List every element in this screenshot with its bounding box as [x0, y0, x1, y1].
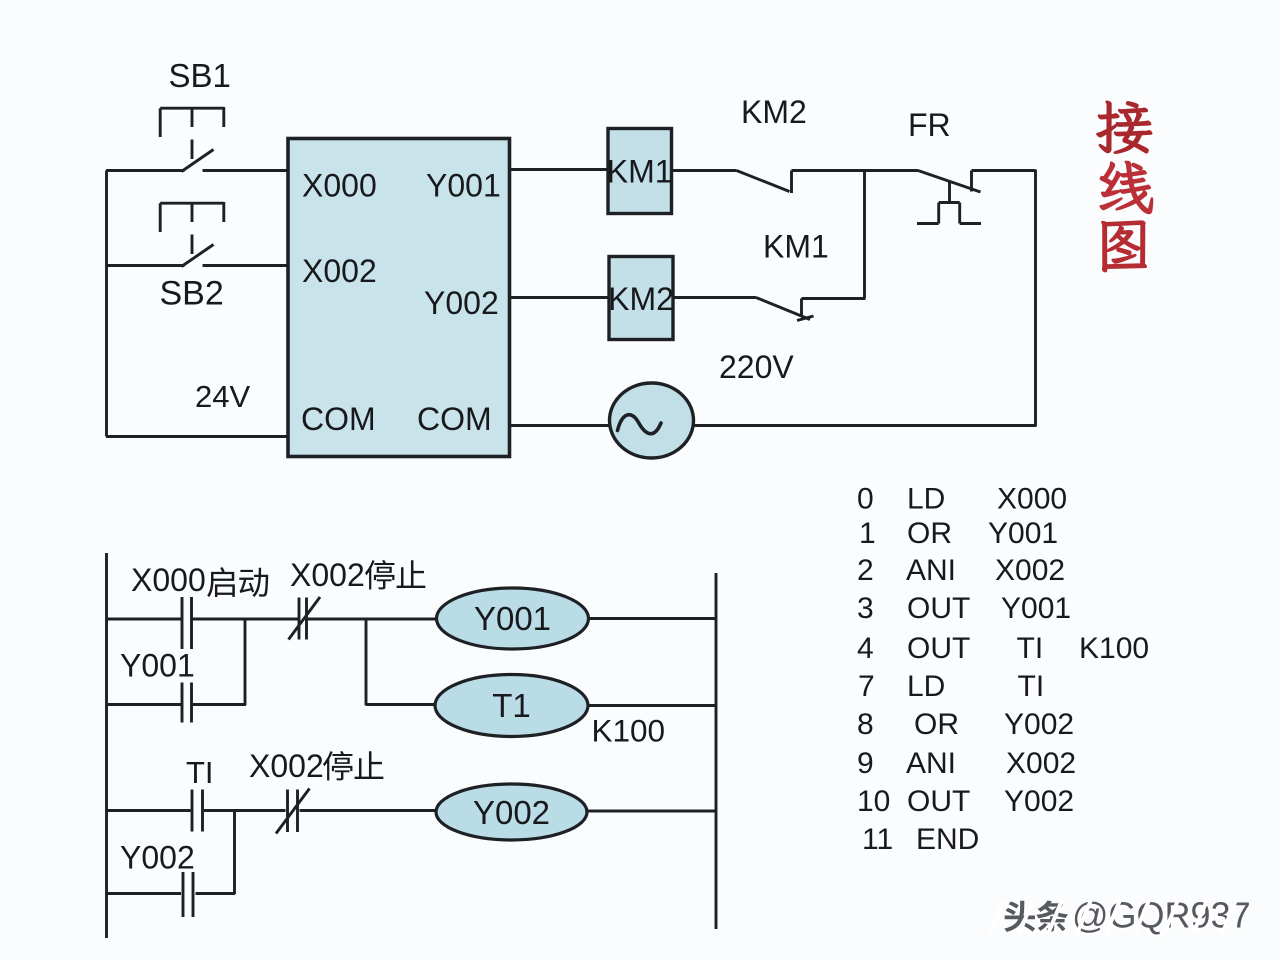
svg-text:9: 9: [857, 747, 874, 780]
svg-text:TI: TI: [186, 755, 214, 790]
svg-text:LD: LD: [907, 670, 945, 703]
svg-text:KM2: KM2: [741, 94, 807, 130]
svg-text:3: 3: [857, 592, 874, 625]
svg-text:COM: COM: [417, 401, 492, 437]
svg-text:11: 11: [862, 823, 893, 856]
svg-text:1: 1: [859, 517, 876, 550]
svg-text:T1: T1: [492, 687, 531, 724]
svg-text:OR: OR: [907, 517, 952, 550]
svg-text:X002: X002: [249, 748, 324, 784]
svg-text:10: 10: [857, 785, 890, 818]
svg-text:KM1: KM1: [607, 154, 673, 190]
svg-text:24V: 24V: [195, 379, 250, 414]
svg-text:TI: TI: [1018, 670, 1045, 703]
svg-text:OR: OR: [914, 708, 959, 741]
svg-text:X002: X002: [302, 253, 377, 289]
svg-text:OUT: OUT: [907, 785, 970, 818]
svg-text:Y001: Y001: [426, 168, 501, 204]
svg-text:0: 0: [857, 482, 874, 515]
svg-text:2: 2: [857, 554, 874, 587]
svg-text:ANI: ANI: [906, 554, 956, 587]
svg-text:X002: X002: [290, 557, 365, 593]
svg-text:COM: COM: [301, 401, 376, 437]
svg-text:Y002: Y002: [473, 794, 550, 831]
svg-text:X000: X000: [997, 482, 1067, 515]
svg-text:K100: K100: [1079, 632, 1149, 665]
svg-text:X000: X000: [131, 562, 206, 598]
svg-text:OUT: OUT: [907, 592, 970, 625]
svg-text:K100: K100: [592, 713, 666, 749]
svg-text:SB1: SB1: [169, 57, 231, 94]
svg-text:220V: 220V: [719, 349, 794, 385]
svg-text:X002: X002: [1006, 747, 1076, 780]
svg-text:Y002: Y002: [424, 285, 499, 321]
svg-text:KM2: KM2: [608, 281, 674, 317]
svg-text:LD: LD: [907, 482, 945, 515]
svg-text:ANI: ANI: [906, 747, 956, 780]
svg-text:Y002: Y002: [1004, 708, 1074, 741]
svg-text:KM1: KM1: [763, 229, 829, 265]
svg-text:Y001: Y001: [988, 517, 1058, 550]
svg-text:Y001: Y001: [120, 648, 195, 684]
svg-text:Y001: Y001: [1001, 592, 1071, 625]
svg-text:END: END: [916, 823, 979, 856]
svg-text:8: 8: [857, 708, 874, 741]
svg-text:Y002: Y002: [1004, 785, 1074, 818]
svg-text:OUT: OUT: [907, 632, 970, 665]
svg-text:Y002: Y002: [120, 840, 195, 876]
svg-text:SB2: SB2: [160, 275, 224, 313]
svg-text:4: 4: [857, 632, 874, 665]
svg-text:TI: TI: [1017, 632, 1044, 665]
svg-text:X000: X000: [302, 168, 377, 204]
svg-text:X002: X002: [995, 554, 1065, 587]
svg-text:7: 7: [858, 670, 875, 703]
svg-text:Y001: Y001: [474, 600, 551, 637]
svg-text:FR: FR: [908, 107, 951, 143]
